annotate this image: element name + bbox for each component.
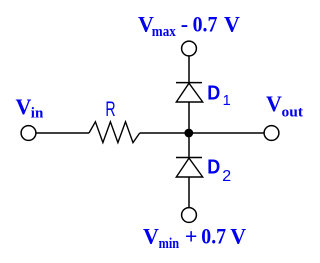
svg-text:2: 2 <box>222 168 231 185</box>
svg-text:in: in <box>31 106 44 122</box>
wire D1 anode to junction <box>188 102 190 133</box>
svg-text:min: min <box>159 236 180 252</box>
label Vout <box>266 91 303 120</box>
svg-text:D: D <box>207 157 220 179</box>
svg-text:+: + <box>185 223 198 248</box>
svg-text:V: V <box>16 94 32 119</box>
svg-text:V: V <box>224 11 240 36</box>
svg-text:0.7: 0.7 <box>193 11 218 36</box>
svg-text:R: R <box>105 98 115 121</box>
label Vin <box>16 94 44 122</box>
terminal Vout <box>264 126 279 141</box>
label D1 <box>207 82 230 109</box>
svg-text:0.7: 0.7 <box>201 223 226 248</box>
diode D2 <box>176 158 203 178</box>
terminal bottom (Vmin) <box>182 208 197 223</box>
svg-text:-: - <box>181 11 188 36</box>
wire top terminal to D1 cathode <box>188 56 190 83</box>
wire Vin to resistor <box>36 132 89 134</box>
label D2 <box>207 157 231 186</box>
svg-text:V: V <box>266 91 282 116</box>
svg-text:V: V <box>230 223 246 248</box>
label Vmin + 0.7 V <box>143 223 246 252</box>
wire junction to D2 cathode <box>188 133 190 158</box>
wire D2 anode to bottom terminal <box>188 177 190 208</box>
svg-text:out: out <box>282 104 304 120</box>
svg-text:D: D <box>207 82 220 104</box>
resistor R <box>89 122 140 143</box>
junction node <box>184 129 193 138</box>
terminal Vin <box>21 126 36 141</box>
label Vmax - 0.7 V <box>138 11 240 40</box>
diode D1 <box>176 83 203 102</box>
wire resistor to Vout <box>140 132 264 134</box>
svg-text:1: 1 <box>223 93 231 109</box>
svg-text:V: V <box>143 223 159 248</box>
svg-text:max: max <box>152 24 177 40</box>
terminal top (Vmax) <box>182 41 197 56</box>
